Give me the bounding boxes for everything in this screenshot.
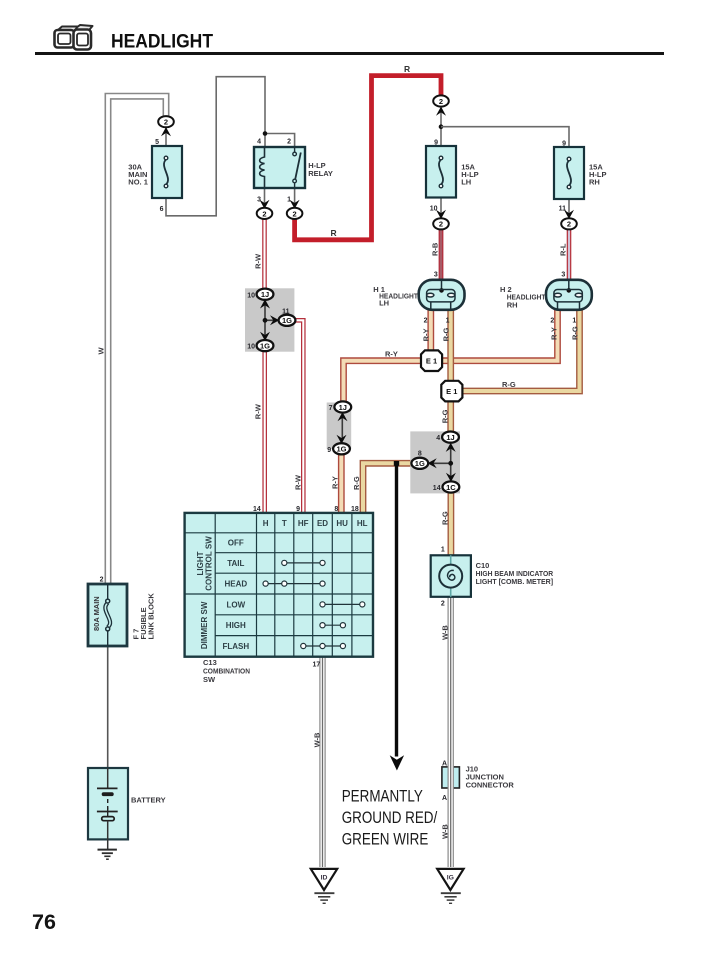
svg-text:1: 1 — [441, 547, 445, 554]
svg-text:HIGH: HIGH — [226, 621, 246, 630]
svg-text:9: 9 — [562, 140, 566, 147]
svg-text:7: 7 — [329, 405, 333, 412]
label H1 HEADLIGHT LH — [373, 285, 418, 308]
svg-text:2: 2 — [164, 118, 168, 127]
svg-text:6: 6 — [160, 206, 164, 213]
svg-text:3: 3 — [434, 272, 438, 279]
oval 1G pin8 right box — [411, 458, 428, 469]
annotation arrow to R-G wire — [390, 461, 404, 771]
wire R-W relay pin3 down to junction 1J — [262, 218, 267, 289]
svg-text:2: 2 — [100, 577, 104, 584]
svg-text:1: 1 — [446, 318, 450, 325]
svg-text:R-Y: R-Y — [385, 350, 398, 359]
svg-text:2: 2 — [441, 601, 445, 608]
fuse 30A MAIN NO.1 box — [152, 146, 182, 198]
svg-text:ED: ED — [317, 519, 328, 528]
oval 1G pin10 middle box — [257, 340, 274, 351]
connector oval 2 at relay pin3 — [257, 200, 273, 219]
thin line relay pin1 stem — [294, 188, 296, 209]
svg-text:4: 4 — [436, 435, 440, 442]
wire R-G from 1G(8) left to corner down to switch HL pin18 — [363, 463, 413, 513]
header rule — [35, 52, 664, 55]
svg-text:2: 2 — [439, 220, 443, 229]
wire R-Y horizontal from 1J(7) corner through E1 to RH headlight pin2 — [344, 308, 558, 406]
wire R-Y from 1G(9) down to switch HU pin8 — [338, 452, 345, 514]
svg-text:LH: LH — [461, 178, 471, 187]
svg-text:17: 17 — [313, 662, 321, 669]
svg-text:R-W: R-W — [293, 474, 302, 490]
svg-text:R-Y: R-Y — [422, 328, 431, 341]
switch contacts HEAD row — [263, 581, 325, 586]
svg-text:80A MAIN: 80A MAIN — [92, 596, 101, 631]
thin stem below LH fuse — [440, 198, 442, 214]
gray junction box right (1J4/1G8/1C14) — [410, 431, 460, 493]
svg-text:A: A — [442, 760, 447, 767]
svg-text:R-W: R-W — [254, 253, 263, 269]
svg-text:2: 2 — [424, 318, 428, 325]
wire R-W from 1G(10) down to switch H pin14 — [262, 350, 267, 514]
gray junction box left (1J7/1G9) — [327, 403, 352, 449]
svg-text:11: 11 — [559, 206, 567, 213]
switch contacts FLASH row — [301, 643, 346, 648]
connector oval 2 below LH fuse pin10 — [433, 210, 449, 230]
svg-text:8: 8 — [334, 506, 338, 513]
wire W single line from fusible link to battery — [107, 646, 109, 768]
svg-text:10: 10 — [430, 206, 438, 213]
svg-text:R-G: R-G — [352, 476, 361, 490]
svg-text:R-G: R-G — [502, 380, 516, 389]
svg-text:1G: 1G — [260, 342, 270, 351]
oval 1C pin14 right box — [443, 481, 460, 492]
fusible link 80A MAIN box — [88, 584, 127, 646]
svg-text:3: 3 — [561, 272, 565, 279]
svg-text:R-B: R-B — [430, 242, 439, 256]
battery box — [88, 768, 128, 849]
right box internal: stem, dot, branches — [433, 446, 451, 477]
left box double arrow — [341, 416, 343, 440]
label 30A MAIN NO.1 — [128, 163, 148, 187]
svg-text:1G: 1G — [282, 316, 292, 325]
svg-text:LOW: LOW — [226, 600, 245, 609]
svg-text:R-G: R-G — [441, 409, 450, 423]
table row names — [222, 539, 249, 651]
svg-text:R-G: R-G — [442, 327, 451, 341]
headlight H1 LH bulb — [419, 280, 465, 310]
svg-text:1J: 1J — [261, 290, 269, 299]
svg-text:E 1: E 1 — [446, 387, 457, 396]
svg-text:RELAY: RELAY — [308, 169, 333, 178]
wire R-G LH headlight pin1 down through E1 to 1J(4) — [447, 308, 454, 433]
svg-text:OFF: OFF — [228, 539, 244, 548]
headlight H2 RH bulb — [546, 280, 592, 310]
svg-text:W: W — [97, 347, 106, 355]
ground triangle IG — [437, 869, 463, 903]
svg-text:8: 8 — [418, 451, 422, 458]
svg-text:R: R — [404, 64, 410, 74]
svg-text:HU: HU — [336, 519, 348, 528]
C10 high beam indicator light box — [431, 555, 471, 597]
svg-text:LINK BLOCK: LINK BLOCK — [147, 593, 156, 640]
relay H-LP box — [254, 147, 305, 188]
wire R-Y LH headlight pin2 to E1 — [427, 308, 434, 351]
wire R-G 1C(14) down to C10 indicator — [447, 492, 454, 556]
svg-text:10: 10 — [247, 344, 255, 351]
svg-text:9: 9 — [434, 139, 438, 146]
junction dot at relay pin 4 — [263, 131, 268, 136]
svg-text:R-Y: R-Y — [331, 476, 340, 489]
svg-text:FLASH: FLASH — [222, 642, 249, 651]
connector oval 2 on thick red R wire — [433, 95, 449, 115]
wire R-G horizontal E1 to RH headlight pin1 — [451, 308, 580, 391]
label C10 HIGH BEAM INDICATOR — [476, 561, 554, 586]
svg-text:1J: 1J — [339, 403, 347, 412]
svg-text:1G: 1G — [336, 445, 346, 454]
junction dot above LH fuse — [439, 124, 444, 129]
oval 1J pin7 left box — [334, 401, 351, 412]
connector oval 2 at relay pin1 — [287, 200, 303, 219]
svg-text:76: 76 — [32, 910, 56, 934]
svg-text:R: R — [331, 228, 337, 238]
svg-text:W-B: W-B — [313, 732, 322, 747]
label LIGHT CONTROL SW rotated — [196, 536, 214, 591]
switch contacts TAIL row — [282, 560, 325, 565]
oval 1J pin10 middle box — [257, 289, 274, 300]
header headlight icon — [55, 25, 93, 50]
oval 1J pin4 right box — [442, 432, 459, 443]
label H2 HEADLIGHT RH — [500, 285, 546, 310]
connector oval 2 at 30A fuse pin5 — [158, 116, 174, 136]
svg-text:HF: HF — [298, 519, 309, 528]
junction connector J10 box — [442, 767, 460, 788]
svg-text:RH: RH — [589, 178, 600, 187]
svg-text:W-B: W-B — [440, 824, 449, 839]
middle box arrows — [260, 299, 270, 308]
table col headers — [263, 519, 368, 528]
wire W-B from switch pin17 down to ID ground — [319, 656, 325, 867]
svg-text:A: A — [442, 795, 447, 802]
connector oval 2 below RH fuse pin11 — [561, 210, 577, 230]
svg-text:HEADLIGHT: HEADLIGHT — [111, 31, 213, 53]
label J10 JUNCTION CONNECTOR — [466, 765, 515, 790]
thin stem below RH fuse — [568, 199, 570, 213]
svg-text:R-Y: R-Y — [549, 327, 558, 340]
thin line relay pin3 stem — [264, 188, 266, 209]
label H-LP RELAY — [308, 161, 333, 178]
battery ground symbol — [98, 850, 117, 860]
gray junction box middle (1J10/1G11/1G10) — [245, 288, 294, 351]
svg-text:R-W: R-W — [254, 403, 263, 419]
svg-text:CONNECTOR: CONNECTOR — [466, 781, 515, 790]
svg-text:11: 11 — [282, 309, 290, 316]
svg-text:CONTROL SW: CONTROL SW — [205, 536, 214, 591]
ground octagon E1 upper — [421, 350, 442, 371]
svg-text:BATTERY: BATTERY — [131, 796, 166, 805]
svg-text:PERMANTLY: PERMANTLY — [342, 788, 423, 805]
svg-text:TAIL: TAIL — [227, 559, 244, 568]
svg-text:E 1: E 1 — [426, 357, 437, 366]
thin line fuse30A connector stem — [165, 127, 167, 146]
svg-text:H: H — [263, 519, 269, 528]
combination switch table — [185, 513, 373, 657]
svg-text:2: 2 — [293, 209, 297, 218]
oval 1G pin11 middle box — [279, 315, 296, 326]
wire W loop from fusible link to 30A fuse — [108, 96, 166, 584]
svg-text:2: 2 — [262, 209, 266, 218]
svg-text:LIGHT [COMB. METER]: LIGHT [COMB. METER] — [476, 577, 554, 586]
thick red wire R from relay pin1 to fuses — [295, 76, 441, 240]
svg-text:T: T — [282, 519, 287, 528]
svg-text:18: 18 — [351, 506, 359, 513]
switch contacts LOW row — [320, 602, 365, 607]
svg-text:DIMMER SW: DIMMER SW — [200, 601, 209, 649]
svg-text:GREEN WIRE: GREEN WIRE — [342, 831, 429, 848]
wire R-L RH fuse to RH headlight — [567, 229, 572, 280]
thin stem above LH fuse — [440, 108, 442, 146]
switch contacts HIGH row — [320, 623, 346, 628]
fuse 15A H-LP LH box — [426, 146, 456, 198]
svg-text:5: 5 — [155, 139, 159, 146]
label F7 FUSIBLE LINK BLOCK rotated — [132, 593, 156, 640]
svg-text:1: 1 — [287, 197, 291, 204]
svg-text:GROUND RED/: GROUND RED/ — [342, 810, 438, 827]
svg-text:9: 9 — [327, 447, 331, 454]
wire W-B from C10 down through J10 to IG ground — [448, 597, 454, 867]
wire from 30A fuse pin6 loop to relay pins 4 and 2 — [166, 77, 295, 216]
svg-text:SW: SW — [203, 675, 216, 684]
fuse 15A H-LP RH box — [554, 147, 584, 199]
label 15A H-LP RH — [589, 163, 607, 187]
wire R-B LH fuse to LH headlight — [439, 229, 444, 280]
svg-text:NO. 1: NO. 1 — [128, 178, 148, 187]
svg-text:14: 14 — [433, 485, 441, 492]
label C13 COMBINATION SW — [203, 658, 250, 684]
svg-text:1J: 1J — [446, 433, 454, 442]
middle box internal: stem, dot, branches — [265, 303, 276, 336]
svg-text:2: 2 — [287, 138, 291, 145]
oval 1G pin9 left box — [333, 443, 350, 454]
svg-text:HEAD: HEAD — [224, 580, 247, 589]
svg-text:4: 4 — [257, 138, 261, 145]
svg-text:R-L: R-L — [558, 243, 567, 256]
wire R-W from 1G(11) right corner down to switch HF pin9 — [294, 320, 303, 513]
thin wire to RH fuse — [441, 127, 569, 147]
svg-text:2: 2 — [439, 97, 443, 106]
label 15A H-LP LH — [461, 163, 479, 187]
svg-text:IG: IG — [447, 875, 454, 882]
ground octagon E1 lower — [441, 381, 462, 402]
svg-text:14: 14 — [253, 506, 261, 513]
svg-text:2: 2 — [550, 318, 554, 325]
svg-text:W-B: W-B — [440, 625, 449, 640]
svg-text:1: 1 — [572, 318, 576, 325]
annotation text — [342, 788, 438, 848]
svg-text:R-G: R-G — [441, 511, 450, 525]
svg-text:HL: HL — [357, 519, 368, 528]
svg-text:1G: 1G — [415, 459, 425, 468]
svg-text:R-G: R-G — [570, 326, 579, 340]
ground triangle ID — [311, 869, 337, 903]
svg-text:3: 3 — [257, 197, 261, 204]
svg-text:ID: ID — [321, 875, 328, 882]
svg-text:RH: RH — [507, 301, 518, 310]
svg-text:9: 9 — [296, 506, 300, 513]
svg-text:2: 2 — [567, 220, 571, 229]
svg-text:LH: LH — [379, 299, 389, 308]
svg-text:10: 10 — [247, 292, 255, 299]
svg-text:1C: 1C — [446, 483, 456, 492]
